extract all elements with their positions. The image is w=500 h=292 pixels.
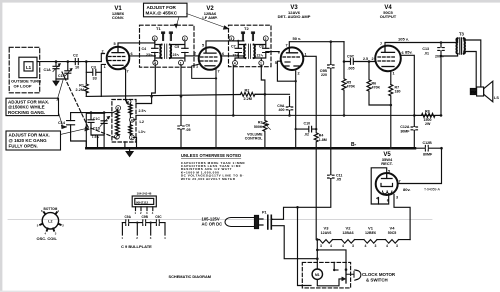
capacitor C14 padder <box>67 121 75 125</box>
BULLPLATE PART <box>132 196 156 211</box>
TUBE V3 <box>281 47 304 70</box>
svg-text:V1: V1 <box>368 225 374 230</box>
capacitor C13 <box>438 41 444 117</box>
T2 coil primary <box>244 45 245 59</box>
svg-text:6: 6 <box>387 198 389 202</box>
node bus R4 <box>315 147 318 150</box>
svg-text:OUTPUT: OUTPUT <box>380 14 397 19</box>
T3 secondary coil <box>464 38 465 53</box>
wire B-minus to C12B segment <box>415 147 442 149</box>
heater bus <box>317 239 410 241</box>
node bus V2 cathode <box>215 147 218 150</box>
svg-text:5: 5 <box>114 42 116 46</box>
svg-text:.01: .01 <box>424 51 429 55</box>
svg-text:3: 3 <box>396 196 398 200</box>
svg-text:6: 6 <box>127 100 129 104</box>
T3 primary coil <box>456 38 457 53</box>
wire V2 pin1 return <box>192 64 216 78</box>
tube V3 internals <box>287 48 298 53</box>
T1 pin 3 <box>152 36 157 41</box>
node T1 pin6 junction <box>154 55 156 57</box>
tube V3 envelope <box>281 47 304 70</box>
svg-text:UNLESS OTHERWISE NOTED: UNLESS OTHERWISE NOTED <box>181 153 241 158</box>
svg-text:22∿: 22∿ <box>257 53 265 57</box>
svg-text:RECT.: RECT. <box>381 161 393 166</box>
svg-text:C12B: C12B <box>423 141 433 145</box>
svg-text:C2: C2 <box>73 54 78 58</box>
svg-text:7: 7 <box>399 180 401 184</box>
svg-text:V3: V3 <box>324 225 330 230</box>
capacitor C4 <box>152 48 158 52</box>
gang box C1C C1D <box>86 113 104 148</box>
svg-text:2: 2 <box>184 37 186 41</box>
resistor R8 <box>414 113 441 117</box>
svg-text:C4: C4 <box>142 47 147 51</box>
wire T1 pin4 down to AVC <box>136 65 155 103</box>
svg-text:@ 1620 KC GANG: @ 1620 KC GANG <box>9 138 48 143</box>
svg-text:C9C: C9C <box>155 215 162 219</box>
callout box adjust 1500 <box>6 80 63 126</box>
wire osc bottom to bus <box>124 142 126 148</box>
node bus volume <box>264 147 267 150</box>
wire V1 pin1 <box>101 64 105 72</box>
svg-text:4: 4 <box>365 244 367 248</box>
loop L1 outer turn <box>19 57 37 77</box>
svg-text:C9B: C9B <box>142 215 149 219</box>
capacitor C9C <box>344 59 375 65</box>
tube V5 internals <box>382 174 393 179</box>
svg-text:CONV.: CONV. <box>112 15 124 20</box>
svg-text:C 9 BULLPLATE: C 9 BULLPLATE <box>121 244 152 249</box>
svg-text:R2: R2 <box>245 88 250 92</box>
wire antenna line <box>37 61 101 63</box>
svg-text:C5: C5 <box>175 45 180 49</box>
bullplate capacitor C9A <box>126 220 129 226</box>
wire V5 pin3 to heater <box>394 195 410 240</box>
wire V4 cathode R7 top <box>390 71 392 85</box>
T1 coil primary <box>160 45 161 59</box>
svg-text:2: 2 <box>131 136 133 140</box>
bullplate bus <box>122 222 165 224</box>
svg-text:FULLY OPEN.: FULLY OPEN. <box>9 143 38 148</box>
svg-text:OSC. COIL: OSC. COIL <box>37 236 58 241</box>
svg-text:30MF: 30MF <box>400 129 410 133</box>
motor M1 <box>312 269 322 279</box>
wire V4 plate 105v <box>385 43 457 47</box>
svg-text:2: 2 <box>194 52 196 56</box>
loop antenna dashed box <box>9 47 40 93</box>
node ant line R1C3 <box>85 60 88 63</box>
svg-text:C8: C8 <box>259 45 264 49</box>
capacitor C5 <box>182 48 188 52</box>
svg-text:2.5: 2.5 <box>363 57 368 61</box>
pin 4 osc <box>130 117 135 122</box>
svg-text:ROCKING GANG.: ROCKING GANG. <box>8 110 45 115</box>
pin 3 osc <box>116 106 121 111</box>
TUBE V4 <box>375 46 401 72</box>
svg-text:470K: 470K <box>372 86 381 90</box>
wire T2 pin4 down to Bplus <box>232 66 235 117</box>
wire motor bottom <box>317 279 342 286</box>
T2 pin 3 <box>229 36 234 41</box>
wire V1 plate to T1 <box>118 41 155 47</box>
svg-text:T-94059-A: T-94059-A <box>424 187 441 191</box>
svg-text:500K: 500K <box>254 125 263 129</box>
svg-text:7: 7 <box>218 70 220 74</box>
wire gangbox bottoms <box>91 129 104 148</box>
T2 pin 4 <box>233 61 238 66</box>
svg-text:2W: 2W <box>425 122 431 126</box>
svg-text:1: 1 <box>393 71 395 75</box>
trimmer C1D <box>101 113 107 131</box>
wire heater drop to motor <box>316 240 318 269</box>
svg-text:1.8M: 1.8M <box>319 138 327 142</box>
svg-text:7: 7 <box>127 70 129 74</box>
svg-text:2.2M: 2.2M <box>76 88 84 92</box>
IF TRANSFORMER T1 <box>140 25 195 67</box>
svg-text:80MF: 80MF <box>423 153 433 157</box>
svg-text:C7: C7 <box>231 45 236 49</box>
osc pins wires <box>113 103 130 135</box>
svg-text:C9A: C9A <box>125 215 132 219</box>
wire osc pin4 to Bplus <box>134 115 137 119</box>
osc winding tickler <box>129 105 132 115</box>
wire V2 cathode down <box>215 70 217 149</box>
capacitor C11 <box>273 148 335 219</box>
svg-text:C1A: C1A <box>44 68 52 72</box>
T1 trimmer screw left <box>162 32 165 41</box>
scan border left <box>0 0 2 292</box>
CLOCK MOTOR AND SWITCH <box>298 207 361 288</box>
svg-text:3: 3 <box>117 107 119 111</box>
node ant line C1A <box>55 60 58 63</box>
svg-text:& SWITCH: & SWITCH <box>366 278 388 283</box>
pin 6 osc <box>126 100 131 105</box>
svg-text:6: 6 <box>222 52 224 56</box>
T2 pin 2 <box>263 36 268 41</box>
resistor R2 <box>241 92 266 96</box>
svg-text:CONTROL: CONTROL <box>245 137 264 141</box>
wire inner stub <box>333 262 335 270</box>
capacitor C12A <box>411 115 417 148</box>
capacitor C9A <box>286 96 292 116</box>
T2 coil secondary <box>254 45 255 59</box>
capacitor C7 <box>235 48 241 52</box>
svg-text:12BA6: 12BA6 <box>342 231 353 235</box>
svg-text:P1: P1 <box>262 210 267 214</box>
ground osc <box>126 148 133 156</box>
bullplate capacitor C9B <box>143 220 146 226</box>
svg-text:2: 2 <box>265 37 267 41</box>
capacitor C3 <box>86 69 101 75</box>
T1 pin 2 <box>182 36 187 41</box>
volume control R3 <box>263 94 271 148</box>
tube V5 envelope <box>376 173 398 195</box>
svg-text:L3∿: L3∿ <box>139 130 147 134</box>
svg-text:T1: T1 <box>156 26 161 31</box>
svg-text:2.2M: 2.2M <box>244 97 252 101</box>
callout box adjust 455 <box>144 3 229 29</box>
capacitor C12B <box>425 145 442 151</box>
svg-text:L1: L1 <box>26 65 32 70</box>
svg-text:12BE6: 12BE6 <box>365 231 376 235</box>
svg-text:23∿: 23∿ <box>173 53 181 57</box>
svg-text:C10: C10 <box>304 122 311 126</box>
wire V5 pin6 <box>379 195 389 204</box>
svg-text:3: 3 <box>154 37 156 41</box>
osc winding L2 <box>116 112 120 136</box>
scan border top <box>0 0 500 3</box>
svg-text:OF LOOP: OF LOOP <box>14 83 32 88</box>
tube V1 internals <box>112 47 124 53</box>
bullplate pin drops <box>122 223 165 235</box>
T1 trimmer screw right <box>169 32 172 41</box>
svg-text:LS: LS <box>494 96 499 100</box>
heater V2 <box>342 240 355 244</box>
svg-text:4: 4 <box>131 118 133 122</box>
tube V1 envelope <box>107 47 130 70</box>
svg-text:80v.: 80v. <box>403 187 411 192</box>
T1 secondary line <box>170 41 185 61</box>
T1 pin 1 <box>179 60 184 65</box>
svg-text:L2: L2 <box>48 219 52 223</box>
heater V4 <box>386 240 399 244</box>
svg-text:7: 7 <box>286 44 288 48</box>
wire V2 pin6 to T2 <box>221 55 244 57</box>
wire V1 cathode to osc <box>124 69 128 104</box>
T2 trimmer screw right <box>251 32 254 41</box>
svg-text:C14: C14 <box>58 121 66 125</box>
wire V2 plate to T2 <box>206 41 244 48</box>
T2 pin 1 <box>259 61 264 66</box>
svg-text:V2: V2 <box>346 225 352 230</box>
pin 1 osc <box>115 134 120 139</box>
osc coil dashed box <box>112 100 136 143</box>
T2 trimmer screw left <box>241 32 244 41</box>
T2 core <box>248 44 250 59</box>
svg-text:L2: L2 <box>140 120 144 124</box>
svg-text:10: 10 <box>75 66 79 70</box>
svg-text:90HZ112: 90HZ112 <box>136 200 149 204</box>
resistor R6 <box>367 62 391 106</box>
svg-text:6: 6 <box>131 52 133 56</box>
svg-text:400: 400 <box>279 108 285 112</box>
SPEAKER LS <box>470 81 492 102</box>
svg-text:5: 5 <box>275 61 277 65</box>
svg-text:50C5: 50C5 <box>388 231 397 235</box>
pin 2 osc <box>130 135 135 140</box>
tube V2 internals <box>204 48 216 53</box>
trimmer C1B <box>65 62 71 79</box>
svg-text:2.5∿: 2.5∿ <box>139 109 148 113</box>
svg-text:5: 5 <box>202 44 204 48</box>
tube V4 envelope <box>375 46 401 72</box>
wire V3 plate 50v <box>289 42 344 48</box>
svg-text:3: 3 <box>375 244 377 248</box>
loop L1 inner <box>24 62 33 71</box>
svg-text:5: 5 <box>388 170 390 174</box>
T2 primary line <box>232 41 245 61</box>
wire V1 grid pin2 <box>101 54 104 62</box>
node T2 pin3 wire <box>237 40 239 42</box>
wire V5 pin5 loop <box>371 168 387 204</box>
svg-text:ADJUST FOR: ADJUST FOR <box>147 5 177 10</box>
resistor R1 <box>84 84 88 93</box>
wire B-plus line <box>136 114 442 116</box>
svg-text:180: 180 <box>395 90 401 94</box>
wire V1 pin6 to T1 <box>129 55 155 57</box>
svg-text:SCHEMATIC DIAGRAM: SCHEMATIC DIAGRAM <box>169 274 212 279</box>
svg-text:1: 1 <box>196 65 198 69</box>
svg-text:23∿: 23∿ <box>146 53 154 57</box>
wire T3 primary <box>441 38 458 56</box>
svg-text:105-125V: 105-125V <box>202 216 220 221</box>
svg-text:C3: C3 <box>91 65 96 69</box>
resistor R5 <box>342 62 346 117</box>
svg-text:M1: M1 <box>315 273 320 277</box>
wire trimmer commons <box>56 79 68 81</box>
svg-text:.02: .02 <box>304 133 309 137</box>
wire osc pin2 down <box>134 137 137 148</box>
ground loop gang <box>53 81 59 85</box>
svg-text:R8: R8 <box>425 109 430 113</box>
svg-text:C1C: C1C <box>93 117 101 121</box>
svg-text:T3: T3 <box>459 31 465 36</box>
svg-text:85v.: 85v. <box>405 50 413 55</box>
node gangbox C1D <box>103 111 106 114</box>
svg-text:PM: PM <box>471 90 476 94</box>
svg-text:2: 2 <box>372 57 374 61</box>
heater V3 <box>320 240 333 244</box>
node bus V3 return <box>294 147 297 150</box>
IF TRANSFORMER T2 <box>229 25 280 66</box>
svg-text:4: 4 <box>330 244 332 248</box>
gang dashed link <box>62 72 116 138</box>
tube V4 internals <box>382 47 395 53</box>
node ant line C1B <box>67 60 70 63</box>
T2 secondary line <box>254 41 279 61</box>
T3 core <box>460 38 462 54</box>
osc winding L3 <box>129 125 132 135</box>
callout box adjust 1620 <box>6 127 90 150</box>
heater V1 <box>364 240 377 244</box>
OUTPUT TRANSFORMER T3 <box>441 38 481 89</box>
wire T2 pin1 down to volume <box>261 66 266 96</box>
wire T1 pin1 down C6 <box>178 65 184 148</box>
svg-text:1: 1 <box>305 53 307 57</box>
svg-text:7: 7 <box>380 42 382 46</box>
C9 BULLPLATE <box>122 220 165 235</box>
tube V2 envelope <box>199 47 222 70</box>
arrowhead leader 1500 <box>62 125 68 129</box>
POWER PLUG P1 <box>225 215 317 258</box>
wire power to clock <box>298 207 312 285</box>
capacitor C2 series in antenna line <box>74 59 81 65</box>
svg-text:6: 6 <box>278 51 280 55</box>
svg-text:DET- AUDIO AMP: DET- AUDIO AMP <box>278 14 311 19</box>
svg-text:105 v.: 105 v. <box>398 37 409 42</box>
svg-text:50 v.: 50 v. <box>293 36 302 41</box>
svg-text:4: 4 <box>342 244 344 248</box>
node gangbox C1C <box>90 111 93 114</box>
svg-text:4: 4 <box>234 62 236 66</box>
bullplate capacitor C9C <box>156 220 159 226</box>
wire B-minus bus <box>86 147 415 150</box>
svg-text:1: 1 <box>104 65 106 69</box>
wire osc tuning line <box>71 113 112 149</box>
svg-text:470K: 470K <box>347 85 356 89</box>
svg-text:2: 2 <box>298 72 300 76</box>
TUBE V5 <box>376 173 398 195</box>
scan fold line <box>8 219 432 221</box>
svg-text:22∿: 22∿ <box>233 53 241 57</box>
svg-text:MAX.@ 455KC: MAX.@ 455KC <box>146 11 178 16</box>
TUBE V1 <box>107 47 130 70</box>
wire 50v corner down <box>343 42 346 63</box>
svg-text:6: 6 <box>402 51 404 55</box>
OSC COIL BASE DIAGRAM <box>42 213 58 229</box>
svg-text:B-: B- <box>351 142 357 148</box>
TUBE V2 <box>199 47 222 70</box>
svg-text:ADJUST FOR MAX.: ADJUST FOR MAX. <box>9 133 50 138</box>
svg-text:.05: .05 <box>336 178 341 182</box>
wire V4 pin6 screen <box>401 55 415 115</box>
svg-text:.05: .05 <box>186 128 191 132</box>
capacitor C6 <box>178 126 184 129</box>
svg-text:.005: .005 <box>348 66 355 70</box>
T1 pin 4 <box>153 60 158 65</box>
svg-text:BOTTOM: BOTTOM <box>44 207 58 211</box>
trimmer C1A <box>53 62 59 79</box>
T1 primary line <box>155 41 161 61</box>
svg-text:12AV6: 12AV6 <box>321 231 332 235</box>
clock dashed box <box>302 262 350 288</box>
svg-text:V4: V4 <box>390 225 396 230</box>
svg-text:C1D: C1D <box>93 127 101 131</box>
resistor R7 <box>389 85 393 150</box>
capacitor C9B <box>328 40 334 149</box>
wire V3 pin1 grid <box>303 56 316 129</box>
svg-text:7.5∿: 7.5∿ <box>92 135 101 139</box>
HEATER STRING <box>316 238 410 243</box>
capacitor C10 <box>295 126 318 132</box>
svg-text:3: 3 <box>320 244 322 248</box>
svg-text:1: 1 <box>116 135 118 139</box>
wire V2 grid from T1 <box>185 55 199 57</box>
svg-text:I-F AMP.: I-F AMP. <box>202 15 217 20</box>
svg-text:3: 3 <box>230 37 232 41</box>
svg-text:C9C: C9C <box>347 55 355 59</box>
wire AVC bus <box>86 94 289 96</box>
capacitor C8 <box>263 48 269 52</box>
wire T3 secondary to speaker <box>464 38 481 88</box>
trimmer C1C <box>88 113 94 129</box>
wire V5 pin7 output <box>398 148 442 183</box>
T2 dashed box <box>229 25 272 66</box>
T1 dashed box <box>140 25 195 67</box>
wire switch feed <box>317 250 346 270</box>
switch <box>345 270 347 283</box>
wire V3 pin5 pin2 return <box>277 61 295 148</box>
svg-text:3: 3 <box>396 244 398 248</box>
resistor R4 <box>314 129 318 240</box>
svg-text:3: 3 <box>352 244 354 248</box>
svg-text:33: 33 <box>93 76 97 80</box>
svg-text:104-24J-46: 104-24J-46 <box>137 192 152 196</box>
svg-text:4: 4 <box>386 244 388 248</box>
svg-text:CLOCK MOTOR: CLOCK MOTOR <box>362 272 396 277</box>
svg-text:200∿: 200∿ <box>435 54 445 58</box>
